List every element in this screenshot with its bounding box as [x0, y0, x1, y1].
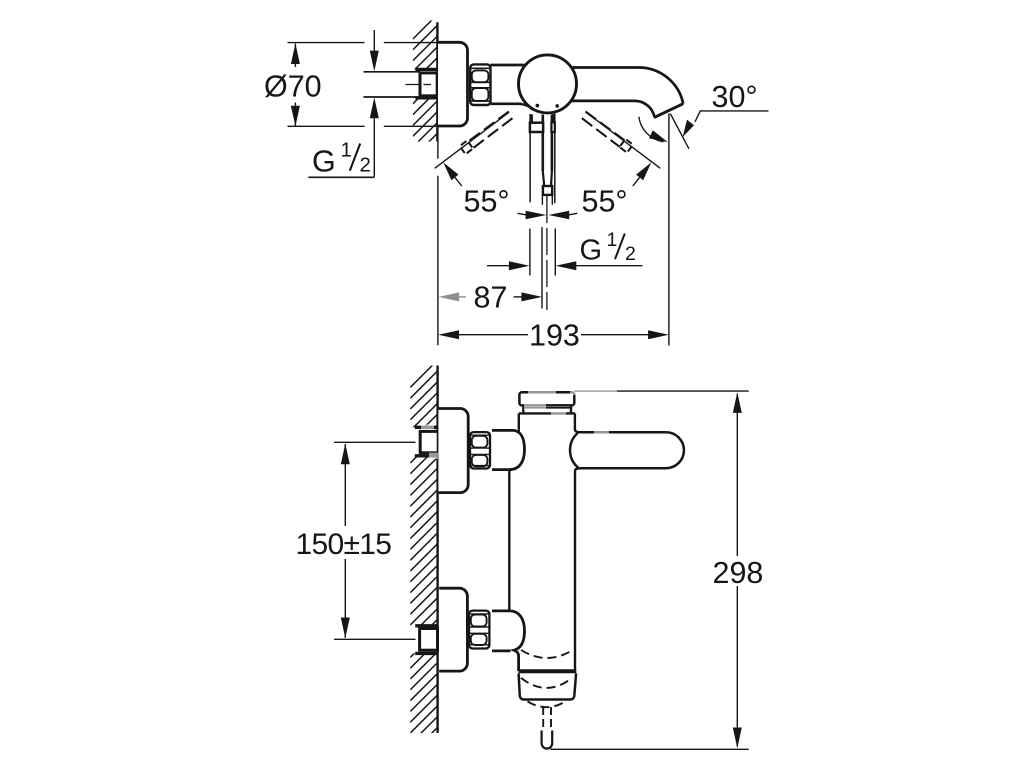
- 87 dimension: [438, 292, 466, 301]
- fillet body to ball: [520, 104, 533, 110]
- hidden rim dashed arc above cup: [521, 650, 573, 658]
- cap disc (bottom view): [519, 392, 574, 405]
- 30 deg arc with arrow: [639, 117, 664, 142]
- lower union dome: [492, 611, 525, 671]
- hose nipple: [542, 731, 553, 749]
- dashed tip box right: [620, 139, 633, 152]
- neck: [523, 405, 571, 413]
- handle cone bulge left: [570, 433, 578, 468]
- 298 label: [711, 556, 763, 586]
- svg-text:87: 87: [474, 281, 508, 315]
- lower G 1/2 dimension: [530, 229, 555, 276]
- pipe thread thick edges in wall: [415, 68, 437, 71]
- spout (top view): [571, 67, 683, 103]
- svg-text:55°: 55°: [582, 185, 628, 219]
- svg-text:193: 193: [529, 319, 580, 353]
- svg-text:1: 1: [607, 229, 618, 251]
- watermark fade patches: [421, 388, 617, 459]
- lower escutcheon (bottom view): [439, 588, 467, 671]
- 55 deg ray right: [586, 112, 660, 168]
- shoulder: [519, 412, 575, 414]
- 193 dimension: [438, 330, 459, 339]
- dia 70 dimension: [288, 42, 439, 44]
- hose nipple dashed sides: [543, 707, 551, 731]
- 55 deg ray left: [435, 112, 509, 168]
- handle bar (bottom view): [575, 430, 684, 471]
- wall face extension line down to 193 dim: [437, 142, 439, 346]
- svg-text:150±15: 150±15: [296, 528, 392, 561]
- pipe centerline dashes: [406, 84, 432, 86]
- spout mouth face: [654, 104, 683, 118]
- svg-text:2: 2: [360, 154, 371, 177]
- body right edge: [574, 413, 576, 430]
- faucet body (top view): [491, 64, 526, 67]
- wall face line (top view): [436, 22, 438, 141]
- handle ball (top view): [519, 55, 577, 113]
- upper union dome: [492, 430, 525, 469]
- upper pipe fitting (bottom view): [415, 426, 438, 429]
- wall (top view) hatching: [413, 15, 438, 169]
- lever handle (top view, rest position): [529, 114, 531, 202]
- hidden arcs in cup: [521, 678, 572, 688]
- 298 dimension: [575, 390, 749, 392]
- svg-text:G: G: [580, 235, 603, 267]
- pipe fitting box behind wall: [420, 73, 437, 96]
- 30 deg leader: [695, 111, 769, 122]
- dashed handle position left 55: [469, 112, 513, 148]
- 30 deg reference slant line: [670, 114, 689, 149]
- union nut (top view): [470, 64, 490, 105]
- handle collar band: [530, 123, 543, 132]
- svg-text:G: G: [312, 145, 336, 179]
- svg-text:30°: 30°: [712, 80, 758, 114]
- svg-text:1: 1: [341, 139, 352, 162]
- handle axis centerline: [546, 196, 548, 310]
- handle tapered tip: [543, 171, 552, 186]
- G 1/2 top dimension: [373, 30, 375, 52]
- wall face line (bottom view): [436, 366, 438, 734]
- 150 dim extension + pipe centerlines: [334, 441, 437, 443]
- svg-text:55°: 55°: [464, 185, 510, 219]
- svg-text:298: 298: [713, 556, 764, 590]
- svg-text:Ø70: Ø70: [264, 69, 322, 103]
- centerline arrow pair: [526, 211, 547, 220]
- dashed tip box left: [460, 141, 473, 154]
- lower union nut (bottom view): [469, 611, 489, 649]
- indicator dots on ball: [536, 104, 540, 108]
- escutcheon flange (top view): [438, 42, 468, 126]
- tip side stubs: [542, 195, 552, 205]
- svg-text:2: 2: [625, 243, 636, 265]
- body left edge upper: [518, 413, 520, 433]
- lower pipe fitting (bottom view): [415, 624, 438, 627]
- 150 +-15 dimension: [344, 444, 346, 638]
- outlet cup: [518, 669, 576, 673]
- wall (bottom view) hatching: [410, 360, 437, 765]
- 55 deg leader arrow left: [443, 162, 458, 180]
- upper escutcheon (bottom view): [438, 409, 468, 493]
- upper union nut (bottom view): [470, 432, 490, 468]
- body left edge mid: [508, 470, 510, 610]
- 55 deg leader arrow right: [636, 162, 651, 180]
- dashed handle position right 55: [582, 112, 626, 148]
- supply pipe (top view): [364, 71, 421, 73]
